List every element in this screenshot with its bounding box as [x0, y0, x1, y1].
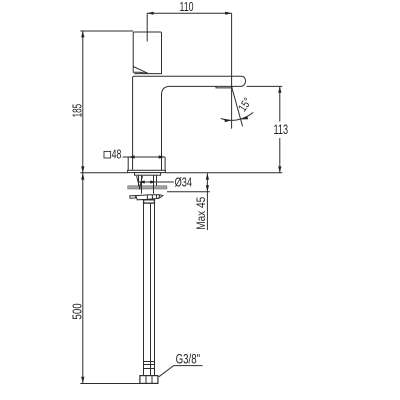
- dimension 110 right arrow: [225, 12, 231, 15]
- dimension diameter 34 line: [139, 181, 174, 183]
- dimension square 48 left arrow: [128, 155, 134, 158]
- svg-text:500: 500: [69, 303, 84, 319]
- supply pipe: [144, 203, 155, 376]
- dimension 113 line lower: [279, 138, 281, 173]
- mounting nut facet lines: [147, 195, 159, 200]
- connection nut facet lines: [146, 376, 152, 384]
- pipe collar below nut: [144, 200, 155, 203]
- deck surface extension line right: [165, 172, 282, 174]
- G3/8 leader line: [159, 366, 203, 377]
- handle lever wedge detail: [133, 67, 148, 74]
- dimension 185 top arrow: [81, 31, 84, 37]
- svg-text:Max 45: Max 45: [196, 197, 208, 230]
- base flange under-ring: [135, 173, 161, 176]
- dimension square 48 label square symbol: [104, 151, 111, 158]
- dimension 185 extension line top: [80, 30, 133, 32]
- dimension 113 line upper: [279, 86, 281, 121]
- 15 degree arc right arrowhead: [241, 116, 248, 119]
- supply pipe compression rings: [144, 362, 155, 369]
- mounting nut body: [136, 195, 163, 200]
- svg-text:48: 48: [112, 147, 122, 162]
- aerator: [216, 86, 232, 88]
- dimension 110 left arrow: [147, 12, 153, 15]
- deck surface extension line left: [80, 172, 127, 174]
- base flange plate: [128, 170, 166, 172]
- dimension 113 extension line top: [247, 85, 283, 87]
- 15 degree arc left arrowhead: [224, 119, 231, 123]
- dimension square 48 line: [123, 156, 166, 158]
- dimension square 48 right arrow: [159, 155, 165, 158]
- dimension 185 bottom arrow: [81, 166, 84, 172]
- mounting nut left blade: [130, 196, 136, 199]
- dimension diameter 34 left arrow: [139, 181, 145, 184]
- dimension 110 right extension line through spout: [231, 13, 233, 129]
- dimension Max 45 line: [206, 173, 208, 230]
- dimension 110 line: [147, 12, 231, 14]
- dimension diameter 34 right arrow: [150, 181, 156, 184]
- svg-text:110: 110: [180, 0, 194, 14]
- dimension 500 bottom arrow: [81, 377, 84, 383]
- threaded shank thread marks: [137, 176, 143, 190]
- dimension 500 line: [82, 173, 84, 384]
- faucet body and spout outline: [133, 76, 246, 170]
- dimension square 48 right extension: [164, 157, 166, 170]
- connection nut G3/8: [140, 376, 158, 384]
- dimension 113 top arrow: [278, 86, 281, 92]
- dimension 500 top arrow: [81, 173, 84, 179]
- dimension 500 bottom extension line: [80, 383, 140, 385]
- handle lever: [133, 32, 161, 74]
- dimension Max 45 bottom arrow: [206, 185, 209, 191]
- dimension 185 line: [82, 31, 84, 173]
- dimension square 48 left extension: [127, 157, 129, 170]
- threaded shank: [139, 175, 157, 193]
- svg-text:185: 185: [69, 104, 84, 118]
- 15 degree outlet axis line: [232, 87, 243, 127]
- svg-text:113: 113: [274, 122, 289, 137]
- dimension 113 bottom arrow: [278, 166, 281, 172]
- svg-text:Ø34: Ø34: [175, 174, 192, 189]
- dimension Max 45 top arrow: [206, 173, 209, 179]
- dimension Max 45 bottom extension line: [167, 191, 210, 193]
- svg-text:G3/8": G3/8": [176, 352, 201, 367]
- dimension 110 extension line into handle: [146, 13, 148, 41]
- mounting washer: [128, 186, 167, 189]
- svg-text:15°: 15°: [237, 96, 254, 114]
- 15 degree arc: [221, 112, 254, 120]
